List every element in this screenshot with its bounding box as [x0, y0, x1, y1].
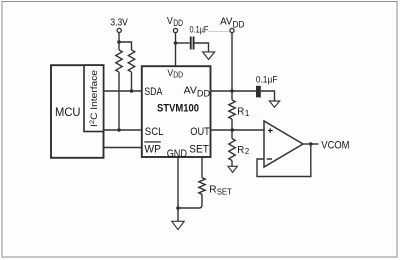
svg-text:DD: DD — [233, 18, 245, 29]
resistor R1 — [229, 91, 250, 130]
wire OUT net — [210, 128, 264, 132]
svg-text:0.1µF: 0.1µF — [190, 24, 209, 34]
wire feedback loop output to inverting input — [257, 144, 311, 177]
wire cap to ground — [195, 43, 209, 52]
ground (main) — [172, 221, 184, 229]
svg-text:MCU: MCU — [55, 105, 81, 119]
wire SCL net MCU to STVM100 — [104, 128, 142, 132]
wire VDD terminal to VDD pin — [174, 33, 178, 66]
svg-text:2: 2 — [245, 147, 250, 156]
svg-text:SET: SET — [217, 187, 233, 197]
wire WP net MCU to STVM100 — [104, 147, 142, 149]
svg-text:SDA: SDA — [144, 86, 163, 98]
resistor R2 — [229, 130, 250, 166]
resistor pull-up on SCL — [116, 50, 122, 72]
wire VDD to decoupling cap — [176, 42, 190, 44]
wire SCL pull-up to SCL line — [118, 72, 120, 130]
wire cap to ground — [261, 91, 275, 101]
svg-text:R: R — [237, 145, 244, 156]
ground (VDD decoupling) — [203, 52, 215, 60]
svg-text:3.3V: 3.3V — [110, 18, 128, 29]
ground (AVDD decoupling) — [269, 101, 279, 107]
wire AVDD pin to cap — [210, 89, 256, 93]
svg-text:R: R — [209, 184, 217, 195]
I2C interface block — [84, 65, 104, 131]
svg-text:R: R — [237, 106, 244, 117]
pin VDD — [167, 68, 183, 80]
ground (R2) — [228, 166, 237, 172]
svg-text:OUT: OUT — [190, 126, 210, 138]
svg-text:STVM100: STVM100 — [157, 103, 199, 115]
pin AVDD — [184, 86, 211, 99]
node 3.3V supply terminal — [110, 18, 128, 33]
wire op-amp output to VCOM — [303, 142, 319, 146]
capacitor C1 0.1uF on VDD — [190, 24, 209, 49]
node AVDD supply terminal — [220, 17, 245, 33]
svg-text:DD: DD — [173, 70, 183, 80]
svg-text:1: 1 — [245, 109, 250, 118]
capacitor C2 0.1uF on AVDD — [256, 74, 278, 97]
svg-text:DD: DD — [197, 88, 211, 98]
wire SET pin down — [201, 158, 203, 178]
svg-text:0.1µF: 0.1µF — [256, 74, 278, 84]
svg-text:VCOM: VCOM — [321, 139, 349, 151]
pin WP (active low) — [144, 142, 161, 156]
svg-text:SET: SET — [189, 143, 209, 155]
svg-text:GND: GND — [167, 148, 187, 160]
svg-text:AV: AV — [184, 86, 198, 97]
MCU block — [51, 65, 104, 158]
svg-text:SCL: SCL — [145, 126, 164, 138]
svg-text:DD: DD — [173, 17, 183, 28]
wire GND pin to ground — [176, 158, 180, 222]
svg-text:AV: AV — [220, 17, 233, 28]
svg-text:WP: WP — [144, 144, 161, 156]
wire SDA net MCU to STVM100 — [104, 89, 142, 93]
svg-text:I2C Interface: I2C Interface — [89, 70, 99, 127]
STVM100 IC U1 — [142, 66, 211, 160]
node VDD supply terminal — [167, 16, 183, 33]
wire AVDD terminal down to AVDD net — [231, 33, 233, 91]
op-amp U2 — [264, 121, 303, 167]
wire RSET to ground junction — [178, 194, 202, 208]
resistor RSET — [199, 178, 233, 197]
wire SDA pull-up to SDA line — [131, 72, 133, 91]
resistor pull-up on SDA — [128, 50, 134, 72]
wire 3.3V to pull-up resistors — [117, 33, 131, 50]
